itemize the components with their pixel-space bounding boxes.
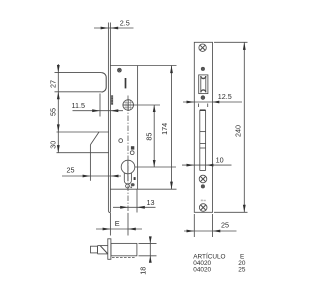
latch tip (bottom view) [91, 246, 98, 253]
dark square detail right of cylinder neck [134, 177, 136, 180]
dimension 11.5 [72, 94, 124, 117]
svg-text:12.5: 12.5 [218, 92, 232, 101]
dimension 25 (side view) [62, 166, 121, 178]
dimension 240 [214, 42, 248, 212]
dimension 85 [134, 105, 176, 167]
small detail above cylinder [130, 146, 134, 154]
latch cutout [199, 75, 208, 94]
svg-text:E: E [115, 219, 120, 228]
latch body with bevel (bottom view) [98, 246, 108, 254]
dimension 25 (right view) [184, 214, 237, 237]
svg-text:ARTÍCULO: ARTÍCULO [193, 251, 225, 260]
svg-text:85: 85 [145, 133, 154, 141]
small rivet dot [201, 67, 204, 70]
svg-text:30: 30 [49, 141, 58, 149]
screw hole middle [199, 175, 207, 183]
svg-text:25: 25 [238, 267, 246, 274]
svg-text:11.5: 11.5 [72, 101, 85, 110]
case (bottom view) [111, 243, 137, 257]
svg-text:18: 18 [139, 267, 148, 275]
dimension chain 27/55/30 [49, 64, 60, 153]
faceplate front rect [194, 42, 212, 212]
faceplate bar (bottom view) [108, 239, 111, 259]
dimension 10 [182, 155, 232, 166]
small screw in case top [118, 68, 122, 72]
table articulo [193, 251, 246, 273]
dimension 13 [113, 189, 156, 212]
svg-text:240: 240 [234, 125, 243, 137]
latch bolt (side view) [55, 73, 107, 92]
svg-text:25: 25 [67, 166, 75, 175]
small circle in case [119, 139, 123, 143]
small rivet dot 2 [201, 96, 205, 100]
center line (dash-dot) [127, 96, 129, 213]
small rivet dot 3 [201, 185, 204, 188]
lock case (side view) [110, 66, 137, 190]
hatched circle below cylinder [126, 183, 135, 188]
dimension E [96, 213, 142, 236]
extension lines for 30 (case front feature lines) [57, 132, 110, 153]
svg-text:04020: 04020 [193, 267, 211, 274]
screw hole top [199, 44, 206, 51]
dimension 12.5 [183, 92, 242, 104]
svg-text:174: 174 [160, 123, 169, 135]
faceplate edge-on (side view) [108, 23, 110, 213]
dimension 174 [138, 66, 177, 190]
svg-text:2.5: 2.5 [120, 18, 130, 27]
screw hole bottom [199, 204, 207, 212]
screw circle with cross pattern [123, 99, 134, 110]
bold slot in case [125, 78, 127, 88]
case front lower section [90, 132, 99, 181]
faint stamp marks above bottom screw [201, 200, 206, 202]
tiny stamp text right of faceplate [111, 95, 113, 104]
svg-text:27: 27 [49, 80, 58, 88]
svg-text:55: 55 [49, 108, 58, 116]
svg-text:13: 13 [147, 198, 155, 207]
small slot below cutout [199, 104, 208, 108]
deadbolt slot ladder [200, 110, 206, 170]
svg-text:25: 25 [221, 221, 229, 230]
dimension 2.5 (faceplate thickness) [94, 18, 134, 29]
dimension 18 [139, 236, 157, 274]
svg-text:10: 10 [216, 155, 224, 164]
euro cylinder profile [121, 160, 135, 184]
